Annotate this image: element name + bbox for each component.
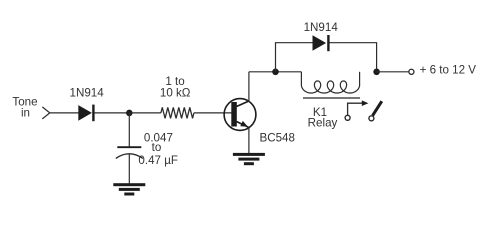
label K1 Relay (308, 106, 338, 130)
wire C1 to ground (128, 154, 130, 183)
svg-text:10 kΩ: 10 kΩ (160, 87, 191, 100)
resistor R1 zigzag (161, 107, 194, 118)
label 1 to 10 kOhm (160, 75, 191, 100)
input chevron (42, 107, 50, 119)
relay contact blade (373, 101, 382, 115)
svg-text:+ 6 to 12 V: + 6 to 12 V (420, 64, 477, 77)
svg-text:Relay: Relay (308, 117, 338, 130)
coil right vertical wire (359, 72, 361, 85)
svg-text:0.47 µF: 0.47 µF (138, 154, 178, 167)
relay contact actuation arrow (348, 100, 369, 115)
svg-text:BC548: BC548 (260, 131, 295, 144)
wire collector rail to coil (249, 71, 302, 73)
relay contact fixed terminal circle (345, 115, 350, 120)
wire input to D1 (50, 112, 79, 114)
svg-text:1N914: 1N914 (70, 87, 105, 100)
wire Q1 emitter down (248, 128, 250, 154)
svg-text:1N914: 1N914 (304, 21, 339, 34)
ground (below C1) (113, 183, 145, 195)
diode D2 1N914 (313, 35, 329, 51)
wire node A to R1 (129, 112, 161, 114)
wire D1 to node A (95, 112, 130, 114)
label Tone in (12, 96, 37, 120)
wire Q1 collector up (248, 72, 250, 102)
wire node A down to C1 (128, 113, 130, 147)
coil left vertical wire (300, 72, 302, 85)
capacitor C1 (116, 147, 143, 158)
wire node B up to D2 branch (276, 43, 313, 72)
diode D1 1N914 (78, 105, 93, 122)
label 0.047 to 0.47 uF (138, 131, 178, 167)
relay core bar (303, 97, 360, 99)
svg-text:in: in (21, 106, 30, 119)
wire D2 to node C (330, 43, 377, 72)
node C junction dot (373, 69, 380, 76)
transistor Q1 (224, 99, 256, 131)
svg-text:to: to (152, 141, 162, 154)
wire R1 to Q1 base (194, 112, 232, 114)
relay coil K1 (301, 81, 359, 93)
relay contact moving terminal circle (369, 116, 374, 121)
node B junction dot (272, 69, 279, 76)
wire node C to supply terminal (377, 71, 409, 73)
supply terminal circle (409, 69, 414, 74)
node A junction dot (126, 110, 133, 117)
ground (below Q1) (233, 153, 265, 165)
